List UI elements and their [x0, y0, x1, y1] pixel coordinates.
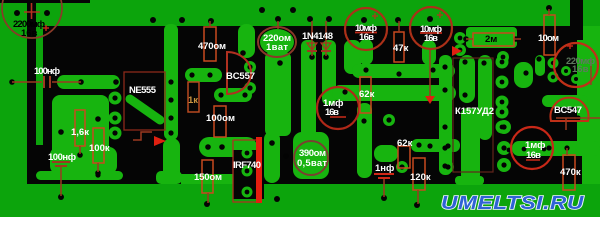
- wire trace1 left: [57, 75, 120, 89]
- svg-text:IRF740: IRF740: [233, 160, 261, 171]
- capacitor C3 10мф 16в ring: [410, 7, 452, 49]
- transistor Q3 IRF740 outline: [233, 140, 256, 202]
- svg-text:47к: 47к: [393, 43, 409, 54]
- op-amp U2 К157УД2 outline: [453, 58, 493, 172]
- resistor R6 150ом body: [202, 160, 213, 193]
- wire NE555 bottom step: [133, 132, 152, 140]
- node holes right block: [501, 124, 506, 129]
- wire 150ом island bar: [36, 171, 123, 180]
- node holes left component area: [58, 129, 64, 135]
- wire BC557 emitter trace: [214, 88, 252, 102]
- svg-text:150ом: 150ом: [194, 172, 222, 183]
- resistor 220ом green body island: [260, 29, 294, 55]
- node holes NE555 left pins: [112, 95, 117, 100]
- copper pour IRF740 tongue: [233, 150, 264, 199]
- wire lead R6 150ом: [207, 193, 209, 203]
- wire polarity marks C3: [420, 32, 442, 34]
- svg-text:100нф: 100нф: [48, 152, 76, 163]
- green island: diode D1 bar: [301, 40, 316, 152]
- node К157УД2 left lower pads: [439, 121, 451, 133]
- svg-text:16в: 16в: [526, 150, 541, 161]
- svg-text:0,5ват: 0,5ват: [297, 158, 327, 169]
- wire vertical bar below 10мф cap2: [422, 40, 436, 65]
- node holes top strip: [150, 17, 156, 23]
- svg-text:1к: 1к: [188, 95, 198, 106]
- green island: cut below 150ом row: [181, 174, 233, 184]
- resistor R13 470к body: [563, 155, 575, 190]
- svg-text:62к: 62к: [397, 138, 413, 149]
- node pad near 62к-2: [383, 114, 395, 126]
- svg-text:100ом: 100ом: [206, 113, 235, 124]
- green island: left component area (100нф/1,6к/100к): [52, 95, 109, 176]
- wire leads R9 2м: [466, 38, 473, 40]
- svg-text:16в: 16в: [325, 107, 339, 118]
- svg-text:16в: 16в: [359, 32, 374, 43]
- wire lead 220ом top: [277, 21, 279, 29]
- resistor R3 100ом body: [214, 106, 226, 137]
- wire vertical bar center bottom: [357, 103, 372, 178]
- capacitor C7 100нф top with wire: [12, 81, 42, 83]
- node holes center traces: [205, 144, 211, 150]
- wire lead R4 1,6к: [79, 146, 81, 154]
- node IRF740 pads column: [242, 148, 253, 159]
- wire polarity marks C2: [355, 32, 377, 34]
- red component overlay layer: [2, 0, 598, 175]
- wire К157УД2 pin bars: [439, 55, 452, 175]
- wire left vertical trace: [27, 0, 36, 184]
- node holes NE555 right pins: [168, 79, 173, 84]
- timer U1 NE555 outline: [124, 72, 165, 130]
- node pads left of 2м: [454, 32, 466, 44]
- svg-text:470к: 470к: [560, 167, 581, 178]
- wire lead R7 47к: [398, 21, 400, 32]
- capacitor C1 2200мф 16в ring: [2, 0, 62, 38]
- node holes К157УД2: [442, 64, 447, 69]
- svg-text:16в: 16в: [21, 28, 38, 39]
- node right pads column: [497, 120, 511, 134]
- green island: 2м notch: [466, 27, 517, 48]
- svg-text:16в: 16в: [424, 33, 438, 44]
- svg-text:100к: 100к: [89, 143, 110, 154]
- svg-text:1,6к: 1,6к: [71, 127, 89, 138]
- green island: NE555 right pads channel: [164, 24, 178, 140]
- wire lead R12 120к: [417, 190, 419, 204]
- wire polarity plus C2: [372, 13, 378, 19]
- svg-text:2м: 2м: [485, 34, 497, 45]
- wire red cross C1: [24, 11, 40, 13]
- wire trace B (62к row): [332, 85, 456, 101]
- wire vertical bar below 10мф cap1: [359, 39, 373, 65]
- wire blob right of К157УД2: [514, 62, 533, 88]
- capacitor C2 10мф 16в ring: [345, 8, 387, 50]
- transistor Q2 BC547 outline: [551, 98, 589, 121]
- svg-text:10ом: 10ом: [538, 33, 559, 44]
- copper pour closing left channel bottom: [34, 145, 44, 184]
- diode D2 1N4148: [325, 21, 327, 56]
- wire lead R13 470к: [566, 148, 568, 155]
- resistor R10 10ом body: [544, 15, 555, 55]
- wire lead R1 470ом: [209, 21, 211, 27]
- svg-text:NE555: NE555: [129, 85, 157, 96]
- wire vertical bar below 220ом: [265, 52, 291, 136]
- svg-text:1N4148: 1N4148: [302, 31, 333, 42]
- wire polarity mark C4: [330, 116, 346, 118]
- node holes BC557 traces: [189, 72, 194, 77]
- green island: right column: [577, 26, 600, 184]
- wire BC547 collector trace: [542, 95, 588, 107]
- wire trace A (47к row): [352, 64, 455, 78]
- capacitor C6 1мф 16в ring right: [511, 127, 553, 169]
- wire right edge vertical net: [590, 58, 592, 85]
- svg-text:1нф: 1нф: [375, 163, 394, 174]
- node pads inside 220мф ring: [548, 58, 559, 69]
- white page strip below board: [0, 217, 600, 231]
- transistor Q3 IRF740 body bar: [256, 137, 262, 203]
- wire red lead on left black bar: [31, 3, 33, 19]
- resistor R9 2м body: [473, 33, 514, 46]
- node BC557 right pads: [244, 61, 256, 73]
- svg-text:BC557: BC557: [226, 71, 255, 82]
- wire arrow pointer right top: [452, 46, 462, 56]
- wire lump near 1нф: [374, 145, 398, 162]
- wire К157УД2 center wide bar: [461, 108, 480, 181]
- green island: bar right of diodes: [344, 40, 361, 74]
- svg-text:470ом: 470ом: [198, 41, 226, 52]
- node holes diode area: [309, 54, 315, 60]
- svg-text:120к: 120к: [410, 172, 431, 183]
- copper pour main ground plane: [43, 0, 600, 184]
- svg-text:62к: 62к: [359, 89, 375, 100]
- wire polarity mark C1 plus: [43, 25, 49, 31]
- capacitor C8 100нф bottom: [52, 161, 70, 163]
- node holes C1 2200мф: [14, 10, 20, 16]
- wire lead R10 10ом: [548, 9, 550, 15]
- svg-text:100нф: 100нф: [34, 66, 60, 77]
- wire BC557 base trace: [185, 68, 222, 82]
- green island: bottom right bar: [512, 141, 600, 156]
- svg-text:UMELTSI.RU: UMELTSI.RU: [441, 193, 585, 213]
- diode D1 1N4148: [311, 21, 313, 56]
- wire angled bar left of IRF740: [163, 138, 180, 184]
- svg-text:16в: 16в: [572, 64, 589, 75]
- node hole wire y82 left: [9, 79, 15, 85]
- resistor R11 62к body lower: [398, 146, 410, 168]
- wire arrow pointer left center: [154, 136, 166, 146]
- svg-text:BC547: BC547: [554, 105, 582, 116]
- node NE555 pads left: [109, 92, 122, 105]
- node holes trace1: [78, 79, 84, 85]
- resistor R8 62к body upper: [360, 77, 371, 113]
- wire channel above BC557: [238, 24, 255, 58]
- capacitor C9 1нф: [374, 173, 394, 175]
- capacitor C5 220мф 16в ring: [554, 43, 598, 87]
- green island: diode D2 bar: [322, 40, 336, 105]
- wire vertical bar right of IRF740: [264, 131, 280, 183]
- wire long vertical net with arrow: [429, 50, 431, 97]
- wire top right net: [556, 117, 600, 119]
- node holes bottom strip: [58, 194, 64, 200]
- wire top edge trace: [0, 0, 90, 3]
- wire NE555 internal diagonal trace: [130, 99, 160, 120]
- resistor R4 1,6к body: [75, 110, 85, 146]
- resistor R 220ом 1ват ellipse: [258, 27, 296, 57]
- svg-text:К157УД2: К157УД2: [455, 106, 494, 117]
- green island: 390ом area: [293, 132, 329, 179]
- wire polarity mark C5 plus: [567, 43, 573, 49]
- svg-text:1ват: 1ват: [266, 42, 288, 53]
- transistor Q1 BC557 outline: [227, 52, 251, 94]
- wire bar 120к row: [411, 139, 460, 152]
- resistor R7 47к body: [394, 32, 404, 62]
- node holes 47к / 62к rows: [363, 67, 368, 72]
- resistor R2 1к body: [188, 82, 199, 112]
- resistor R12 120к body: [413, 158, 425, 190]
- node holes 2м: [463, 36, 469, 42]
- node К157УД2 pads column: [496, 56, 509, 69]
- resistor R1 470ом body: [204, 27, 216, 61]
- wire lead R5 100к: [97, 163, 99, 172]
- resistor R5 100к body: [93, 128, 104, 163]
- wire polarity plus C3: [437, 12, 443, 18]
- resistor R 390ом 0,5ват ring: [294, 141, 328, 175]
- wire 3-pad trace center: [199, 137, 257, 157]
- capacitor C4 1мф 16в ring: [317, 87, 359, 129]
- wire polarity mark C6: [526, 159, 540, 161]
